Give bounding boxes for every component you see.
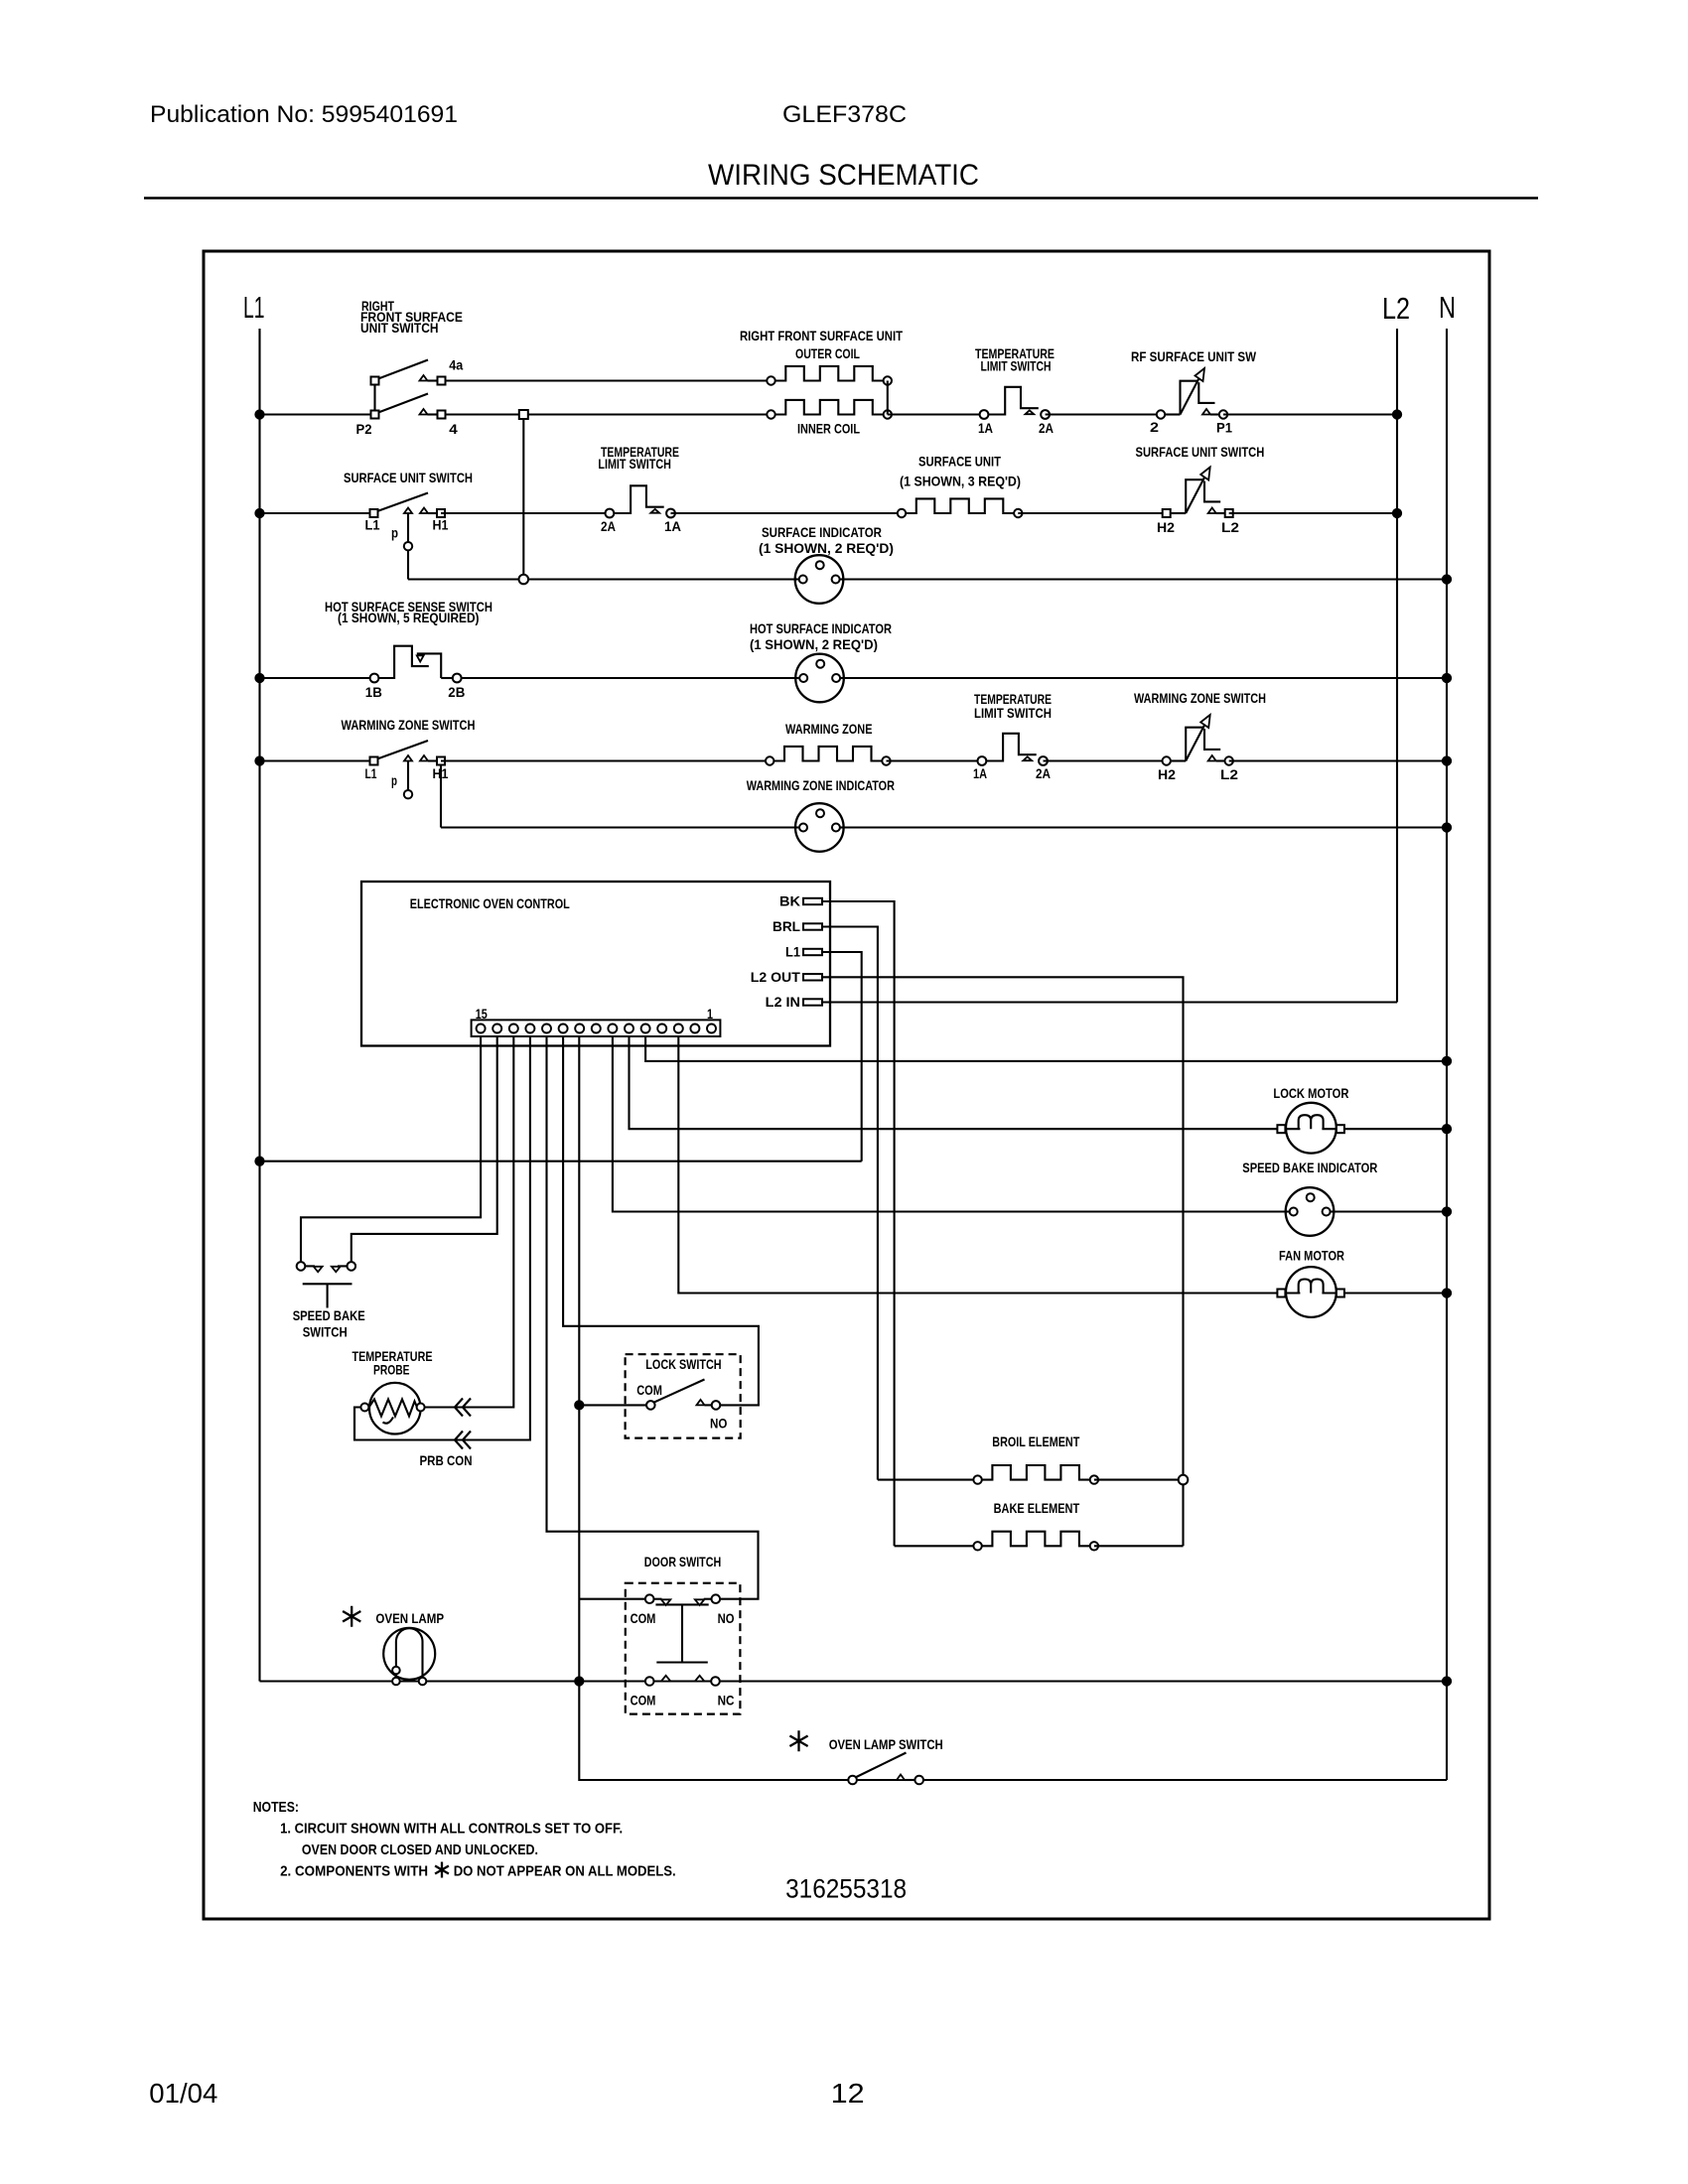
junction dot N door line (1443, 1677, 1452, 1686)
wire 2B to N (462, 677, 1447, 679)
wire coil to 1A row4 (887, 759, 982, 761)
terminal strip (472, 1020, 721, 1036)
lamp oven (383, 1628, 435, 1680)
wire broil coil to L2OUT drop (1094, 1479, 1184, 1481)
switch right front surface unit (DPST) (371, 377, 379, 385)
svg-text:WARMING ZONE SWITCH: WARMING ZONE SWITCH (342, 717, 476, 733)
svg-text:WIRING SCHEMATIC: WIRING SCHEMATIC (708, 159, 979, 192)
switch speed bake (297, 1262, 306, 1271)
coil surface unit (898, 509, 906, 517)
svg-text:RIGHT FRONT SURFACE UNIT: RIGHT FRONT SURFACE UNIT (740, 328, 903, 343)
svg-text:p: p (391, 772, 397, 788)
switch hot surface sense (370, 674, 379, 683)
svg-text:OUTER COIL: OUTER COIL (795, 345, 860, 361)
pin L2 IN (803, 999, 822, 1005)
svg-text:OVEN LAMP SWITCH: OVEN LAMP SWITCH (829, 1736, 943, 1752)
svg-text:SPEED BAKE: SPEED BAKE (293, 1307, 365, 1323)
svg-text:UNIT SWITCH: UNIT SWITCH (360, 320, 439, 336)
asterisk note (435, 1862, 449, 1878)
svg-text:316255318: 316255318 (785, 1874, 907, 1904)
svg-text:L1: L1 (785, 944, 800, 960)
temperature probe (369, 1383, 421, 1434)
svg-text:WARMING ZONE INDICATOR: WARMING ZONE INDICATOR (747, 777, 895, 793)
junction open circle (519, 575, 529, 585)
pin BRL (803, 923, 822, 929)
junction open circle broil (1179, 1475, 1189, 1485)
wire oven lamp line (260, 1680, 1448, 1682)
svg-text:P2: P2 (356, 421, 372, 437)
svg-text:Publication No: 5995401691: Publication No: 5995401691 (150, 101, 458, 128)
svg-text:1: 1 (707, 1006, 713, 1022)
svg-text:LIMIT SWITCH: LIMIT SWITCH (974, 705, 1052, 721)
wire 2A to RF switch (1046, 413, 1161, 415)
lock switch dashed box (626, 1354, 741, 1437)
wire L1 to surface unit switch (260, 512, 374, 514)
svg-text:4: 4 (449, 421, 458, 437)
svg-text:(1 SHOWN, 5 REQUIRED): (1 SHOWN, 5 REQUIRED) (338, 610, 480, 625)
asterisk oven lamp switch (789, 1730, 807, 1751)
svg-text:(1 SHOWN, 2 REQ'D): (1 SHOWN, 2 REQ'D) (759, 540, 894, 556)
svg-text:BROIL ELEMENT: BROIL ELEMENT (992, 1433, 1079, 1449)
svg-text:H1: H1 (433, 517, 449, 533)
wire BRL to broil coil (878, 1479, 978, 1481)
svg-text:DOOR SWITCH: DOOR SWITCH (644, 1554, 721, 1570)
svg-text:SURFACE UNIT SWITCH: SURFACE UNIT SWITCH (1136, 444, 1265, 460)
switch surface unit (left) (370, 509, 378, 517)
wire pin6 to lock motor (630, 1036, 1448, 1129)
junction dot L1 row3 (255, 674, 264, 683)
svg-text:(1 SHOWN, 3 REQ'D): (1 SHOWN, 3 REQ'D) (900, 474, 1021, 489)
wire P stub row4 (407, 761, 409, 791)
coil warming zone (766, 756, 774, 764)
svg-text:WARMING ZONE SWITCH: WARMING ZONE SWITCH (1134, 690, 1266, 706)
wire pin9 to lock COM (579, 1404, 646, 1406)
wire pin12 to probe return (354, 1036, 530, 1440)
electronic oven control box (361, 882, 830, 1046)
wire pin7 to speed bake indicator (613, 1036, 1447, 1212)
door switch actuator (655, 1603, 708, 1605)
wire BRL pin (822, 927, 878, 1480)
door switch dashed box (626, 1583, 741, 1714)
svg-text:p: p (391, 525, 398, 541)
svg-text:NC: NC (718, 1693, 735, 1708)
svg-text:15: 15 (476, 1006, 488, 1022)
svg-text:H2: H2 (1158, 766, 1176, 782)
svg-text:L1: L1 (365, 765, 377, 781)
wire pin5 to N (645, 1036, 1447, 1061)
junction dot N lock motor (1443, 1125, 1452, 1134)
svg-text:2A: 2A (601, 518, 616, 534)
svg-text:LIMIT SWITCH: LIMIT SWITCH (981, 358, 1052, 374)
pin L2 OUT (803, 974, 822, 980)
wire 4a to outer coil (446, 379, 772, 381)
svg-text:P1: P1 (1216, 420, 1232, 436)
svg-text:N: N (1439, 290, 1456, 325)
svg-text:PRB CON: PRB CON (420, 1452, 473, 1468)
title rule (144, 197, 1538, 200)
svg-text:GLEF378C: GLEF378C (782, 101, 907, 128)
svg-text:2. COMPONENTS WITH: 2. COMPONENTS WITH (280, 1863, 428, 1880)
switch warming zone (left) (370, 757, 378, 765)
svg-text:1A: 1A (973, 765, 987, 781)
coil bake element (973, 1542, 981, 1550)
junction square node (519, 410, 528, 419)
svg-text:LOCK SWITCH: LOCK SWITCH (645, 1356, 721, 1372)
wire L2 rail (1396, 329, 1398, 1003)
wire L1 pin to L1 rail (260, 1160, 862, 1162)
svg-text:L2: L2 (1382, 291, 1410, 326)
wire junction drop from row1 (522, 419, 524, 580)
svg-text:HOT SURFACE INDICATOR: HOT SURFACE INDICATOR (750, 620, 892, 636)
svg-text:NOTES:: NOTES: (253, 1799, 299, 1816)
junction dot L2 row2 (1393, 509, 1402, 518)
temperature limit switch row1 (980, 410, 989, 419)
switch RF surface unit (1157, 410, 1165, 418)
wire pin15 to speed bake switch (301, 1036, 481, 1262)
svg-text:2A: 2A (1039, 420, 1054, 436)
border frame (204, 251, 1489, 1919)
wire N rail (1446, 329, 1448, 1780)
wire pin10 to lock NO (563, 1036, 759, 1405)
wire L1 to 1B (260, 677, 375, 679)
asterisk oven lamp (343, 1606, 360, 1627)
svg-text:L1: L1 (365, 517, 380, 533)
coil inner (767, 410, 774, 418)
svg-text:COM: COM (631, 1693, 656, 1708)
svg-text:LIMIT SWITCH: LIMIT SWITCH (598, 456, 671, 472)
svg-text:2: 2 (1150, 419, 1159, 435)
junction dot lock COM (575, 1401, 584, 1410)
svg-text:1A: 1A (664, 518, 681, 534)
indicator warming zone (795, 803, 844, 852)
svg-text:SURFACE UNIT SWITCH: SURFACE UNIT SWITCH (344, 470, 473, 485)
svg-text:1. CIRCUIT SHOWN WITH ALL CON: 1. CIRCUIT SHOWN WITH ALL CONTROLS SET T… (280, 1821, 623, 1838)
svg-text:DO NOT APPEAR ON ALL MODELS.: DO NOT APPEAR ON ALL MODELS. (454, 1863, 676, 1880)
junction dot L1 row2 (255, 509, 264, 518)
svg-text:SURFACE UNIT: SURFACE UNIT (918, 454, 1001, 470)
wire L2 IN pin (822, 1001, 1397, 1003)
indicator speed bake (1286, 1187, 1335, 1236)
svg-text:(1 SHOWN, 2 REQ'D): (1 SHOWN, 2 REQ'D) (750, 636, 878, 652)
svg-text:2B: 2B (448, 684, 465, 700)
svg-text:LOCK MOTOR: LOCK MOTOR (1273, 1085, 1348, 1101)
switch lock (646, 1401, 655, 1410)
junction dot N speed bake ind (1443, 1207, 1452, 1216)
svg-text:12: 12 (831, 2078, 865, 2109)
wire pin3 to fan motor (678, 1036, 1447, 1294)
svg-text:L2: L2 (1220, 766, 1238, 782)
svg-text:NO: NO (718, 1610, 735, 1626)
wire P drop row2 (407, 513, 409, 542)
wire BK to bake coil (895, 1545, 978, 1547)
svg-text:H2: H2 (1157, 519, 1175, 535)
svg-text:BAKE ELEMENT: BAKE ELEMENT (994, 1500, 1080, 1516)
pin BK (803, 898, 822, 904)
wire L2 term to N row4 (1229, 759, 1447, 761)
svg-text:COM: COM (631, 1610, 656, 1626)
junction dot N row4 (1443, 756, 1452, 765)
svg-text:FAN MOTOR: FAN MOTOR (1279, 1248, 1344, 1264)
junction dot L1 pin line (255, 1157, 264, 1165)
junction dot L1 row4 (255, 756, 264, 765)
svg-text:BRL: BRL (773, 918, 800, 934)
wire coil to H2 row2 (1018, 512, 1166, 514)
wire L2 OUT pin (822, 977, 1184, 1546)
wire L1 to P2 (260, 413, 375, 415)
svg-text:4a: 4a (449, 357, 463, 373)
junction dot N row3 (1443, 674, 1452, 683)
svg-text:L2: L2 (1221, 519, 1239, 535)
wire L2 term to L2 rail (1229, 512, 1397, 514)
wire L1 to warming switch (260, 759, 374, 761)
temperature limit switch row4 (978, 756, 987, 765)
wire surface indicator line (408, 578, 1447, 580)
svg-text:PROBE: PROBE (373, 1362, 410, 1378)
wire H1 drop row4 (440, 765, 442, 828)
wire to oven lamp switch (579, 1682, 1447, 1781)
svg-text:NO: NO (710, 1416, 727, 1432)
svg-text:2A: 2A (1036, 765, 1051, 781)
svg-text:OVEN LAMP: OVEN LAMP (375, 1610, 444, 1626)
indicator surface (795, 555, 844, 604)
svg-text:INNER COIL: INNER COIL (797, 421, 860, 437)
svg-text:1A: 1A (978, 420, 993, 436)
wire warming indicator line (441, 826, 1447, 828)
svg-text:1B: 1B (365, 684, 382, 700)
wire pin13 to probe (425, 1036, 514, 1408)
switch door lower contacts (645, 1677, 654, 1686)
svg-text:COM: COM (636, 1382, 662, 1398)
wire to temperature limit switch (888, 413, 984, 415)
switch oven lamp (848, 1776, 857, 1785)
wire bake coil to L2OUT drop (1094, 1545, 1184, 1547)
pin L1 (803, 949, 822, 955)
wire P1 to L2 rail (1223, 413, 1397, 415)
svg-text:01/04: 01/04 (149, 2078, 217, 2109)
wire BK pin (822, 901, 895, 1546)
temperature limit switch row2 (606, 509, 615, 518)
wire coil join (887, 381, 889, 415)
wire pin9 to door COM (579, 1598, 645, 1600)
switch surface unit right (1163, 509, 1171, 517)
junction dot N surface indicator (1443, 575, 1452, 584)
motor fan (1286, 1267, 1336, 1317)
svg-text:BK: BK (779, 893, 800, 909)
junction dot L2 row1 (1393, 410, 1402, 419)
wire L1 rail (258, 329, 260, 1682)
svg-text:L1: L1 (243, 290, 265, 325)
svg-text:SURFACE INDICATOR: SURFACE INDICATOR (762, 524, 882, 540)
svg-text:SPEED BAKE INDICATOR: SPEED BAKE INDICATOR (1242, 1160, 1377, 1175)
svg-text:L2 IN: L2 IN (766, 994, 800, 1010)
svg-text:SWITCH: SWITCH (303, 1324, 348, 1340)
wire H1 to temp limit switch row2 (441, 512, 610, 514)
wire 4 to inner coil (446, 413, 772, 415)
svg-text:RF SURFACE UNIT SW: RF SURFACE UNIT SW (1131, 348, 1257, 364)
wire probe left to return (354, 1408, 360, 1440)
svg-text:ELECTRONIC OVEN CONTROL: ELECTRONIC OVEN CONTROL (410, 895, 570, 911)
coil broil element (973, 1475, 981, 1483)
chevron connector lower (455, 1432, 471, 1449)
wire pin11 to door NO (547, 1036, 759, 1599)
svg-text:L2 OUT: L2 OUT (751, 969, 800, 985)
switch door upper contacts (645, 1594, 654, 1603)
wire H1 to warming coil (441, 759, 770, 761)
wire pin14 to speed bake switch (352, 1036, 497, 1262)
junction dot L1 row1 (255, 410, 264, 419)
motor lock (1286, 1103, 1336, 1154)
wire pin9 trunk (578, 1036, 580, 1682)
indicator hot surface (795, 654, 844, 703)
junction dot N row4b (1443, 823, 1452, 832)
wire L1 pin (822, 952, 862, 1161)
svg-text:WARMING ZONE: WARMING ZONE (785, 721, 873, 737)
wire 2A to H2 row4 (1044, 759, 1167, 761)
junction dot door line (575, 1677, 584, 1686)
wire 1A to surface unit coil (671, 512, 903, 514)
chevron connector upper (455, 1399, 471, 1417)
junction dot N pin5 (1443, 1057, 1452, 1066)
switch warming zone right (1163, 756, 1171, 764)
junction dot N fan motor (1443, 1289, 1452, 1297)
coil outer (767, 376, 774, 384)
svg-text:OVEN DOOR CLOSED AND UNLOCKED.: OVEN DOOR CLOSED AND UNLOCKED. (302, 1842, 538, 1858)
